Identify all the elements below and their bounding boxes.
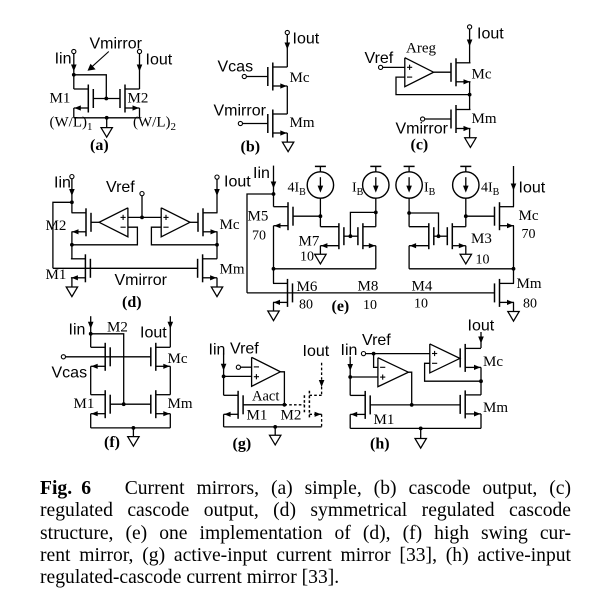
ground (h) bbox=[415, 439, 426, 449]
node bottom junction (g) bbox=[273, 425, 277, 429]
svg-text:M5: M5 bbox=[248, 209, 269, 225]
transistor Mm (h) bbox=[464, 390, 466, 418]
wire Vref to op-amp - (g) bbox=[241, 366, 252, 368]
op-amp left U1 (d) bbox=[99, 208, 128, 237]
wire Mm drain (e) bbox=[513, 269, 515, 284]
wire M1-Mm gate rail (f) bbox=[110, 403, 151, 405]
wire Iin (d) bbox=[71, 179, 73, 203]
wire op-amp1 output to M2 gate (d) bbox=[91, 221, 99, 223]
terminal Vmirror (b) bbox=[238, 121, 242, 125]
svg-text:Iout: Iout bbox=[477, 26, 504, 43]
wire Mm source to ground (e) bbox=[513, 302, 515, 311]
current source IB right (e) bbox=[396, 172, 422, 198]
wire op-amp2 output to Mc gate (d) bbox=[190, 221, 198, 223]
wire M2 drain (f) bbox=[90, 334, 92, 347]
op-amp Aact U1 (g) bbox=[252, 357, 281, 386]
transistor M8 (e) bbox=[362, 223, 364, 249]
ground M6 (e) bbox=[268, 311, 279, 321]
svg-text:Iin: Iin bbox=[253, 165, 270, 182]
transistor M2 (d) bbox=[85, 208, 87, 236]
ground M1 (d) bbox=[66, 287, 77, 297]
op-amp Areg U1 (c) bbox=[405, 58, 434, 87]
ground (f) bbox=[128, 437, 139, 447]
wire feedback op-amp2 (d) bbox=[151, 227, 217, 245]
wire M5 gate to 4IB node (e) bbox=[293, 215, 320, 217]
wire 4IB right column (e) bbox=[465, 198, 467, 227]
figure caption bbox=[40, 478, 571, 589]
wire Vcas (b) bbox=[246, 76, 267, 78]
svg-text:Aact: Aact bbox=[252, 389, 279, 405]
svg-text:Vcas: Vcas bbox=[218, 59, 254, 76]
wire Mm drain (h) bbox=[480, 381, 482, 395]
node Vref junction (h) bbox=[372, 352, 376, 356]
transistor Mm (f) bbox=[155, 390, 157, 418]
terminal Iin (a) bbox=[72, 49, 76, 53]
current source 4IB left (e) bbox=[307, 172, 333, 198]
terminal Vcas (f) bbox=[61, 355, 65, 359]
svg-text:Mm: Mm bbox=[483, 400, 508, 416]
op-amp U2 (h) bbox=[430, 344, 460, 373]
svg-text:Areg: Areg bbox=[406, 41, 436, 57]
svg-text:Mm: Mm bbox=[168, 396, 193, 412]
wire Vmirror gate rail (d) bbox=[53, 267, 198, 269]
wire bottom rail (h) bbox=[350, 427, 481, 429]
svg-text:Vmirror: Vmirror bbox=[214, 103, 267, 120]
wire M1 source (a) bbox=[73, 108, 75, 118]
wire M1 gate (g) bbox=[243, 404, 284, 406]
wire Iout (c) bbox=[469, 29, 471, 63]
terminal Vref (d) bbox=[140, 192, 144, 196]
wire Vref rail (h) bbox=[366, 353, 430, 355]
wire Iin to gate rail bracket (d) bbox=[53, 202, 72, 268]
svg-text:Iout: Iout bbox=[224, 174, 251, 191]
transistor M3 (e) bbox=[451, 223, 453, 249]
wire M6 source to ground (e) bbox=[273, 302, 275, 311]
terminal Iout (a) bbox=[137, 49, 141, 53]
svg-text:(h): (h) bbox=[370, 436, 390, 453]
transistor Mc (e) bbox=[499, 202, 501, 230]
wire M2 drain (d) bbox=[71, 202, 73, 213]
wire Mm source to ground (c) bbox=[469, 129, 471, 138]
wire ground stem (a) bbox=[106, 118, 108, 128]
wire gate rail (a) bbox=[93, 98, 120, 100]
svg-text:Iout: Iout bbox=[468, 318, 495, 335]
transistor M2 dashed (g) bbox=[308, 391, 310, 419]
op-amp U1 (h) bbox=[378, 358, 409, 387]
svg-text:80: 80 bbox=[299, 298, 313, 313]
svg-text:Iin: Iin bbox=[209, 342, 226, 359]
svg-text:M1: M1 bbox=[374, 412, 395, 428]
node Mc gate junction (e) bbox=[464, 214, 468, 218]
terminal Iout (d) bbox=[215, 175, 219, 179]
wire 4IB left column (e) bbox=[319, 198, 321, 227]
supply T-bar IB right (e) bbox=[404, 165, 415, 167]
wire op-amp output to Mc gate (c) bbox=[434, 71, 451, 73]
wire Mm source to ground (d) bbox=[216, 278, 218, 287]
node M5-M6 junction (e) bbox=[272, 267, 276, 271]
wire M2 source dashed (g) bbox=[321, 414, 323, 427]
transistor M1 (d) bbox=[84, 254, 86, 282]
wire Iout dashed (g) bbox=[321, 363, 323, 396]
terminal Iin (d) bbox=[70, 175, 74, 179]
svg-text:Vmirror: Vmirror bbox=[396, 120, 449, 137]
ground (g) bbox=[270, 435, 281, 445]
svg-text:M1: M1 bbox=[247, 408, 268, 424]
svg-text:Iout: Iout bbox=[293, 31, 320, 48]
wire Mc gate to 4IB node (e) bbox=[466, 215, 495, 217]
wire feedback op-amp1 (d) bbox=[72, 227, 137, 245]
wire Iout (a) bbox=[139, 54, 141, 89]
wire M2 source to M1 drain (f) bbox=[90, 366, 92, 394]
svg-text:M3: M3 bbox=[471, 231, 492, 247]
wire M2 source to node (d) bbox=[71, 232, 73, 245]
wire M1 source (h) bbox=[349, 414, 351, 428]
wire Iin to op-amp + (g) bbox=[224, 375, 252, 377]
wire Iin (h) bbox=[349, 357, 351, 378]
transistor M7 (e) bbox=[338, 223, 340, 249]
wire M7-M8 gate link (e) bbox=[344, 235, 358, 237]
wire Iout (e) bbox=[513, 166, 515, 207]
svg-text:M2: M2 bbox=[281, 408, 302, 424]
wire Vref to op-amp1 - (h) bbox=[374, 354, 378, 368]
wire IB right column (e) bbox=[408, 198, 410, 227]
wire node interconnect right (e) bbox=[409, 268, 513, 270]
node feedback junction (c) bbox=[468, 93, 472, 97]
wire feedback from - input (c) bbox=[396, 77, 470, 95]
wire Mc source to node (d) bbox=[216, 232, 218, 245]
wire Mc source column (e) bbox=[513, 226, 515, 269]
wire Vmirror (c) bbox=[425, 118, 451, 120]
svg-text:(e): (e) bbox=[332, 298, 350, 315]
supply T-bar 4IB left (e) bbox=[315, 165, 326, 167]
wire Iout (b) bbox=[286, 35, 288, 67]
node gate junction (h) bbox=[410, 403, 414, 407]
ground M7 (e) bbox=[315, 254, 326, 264]
svg-text:M8: M8 bbox=[358, 279, 379, 295]
wire gate link to IB node left (e) bbox=[350, 212, 375, 236]
supply T-bar IB left (e) bbox=[370, 165, 381, 167]
wire feedback op-amp2 (h) bbox=[425, 363, 481, 381]
wire Iin (a) bbox=[73, 54, 75, 75]
node M2 source junction (d) bbox=[70, 243, 74, 247]
transistor Mc (f) bbox=[155, 343, 157, 371]
wire M4 source to node (e) bbox=[408, 246, 410, 269]
svg-text:Vmirror: Vmirror bbox=[115, 272, 168, 289]
svg-text:(c): (c) bbox=[411, 137, 429, 154]
wire M1-Mm gate rail (h) bbox=[370, 404, 460, 406]
svg-text:(a): (a) bbox=[90, 137, 109, 154]
wire Mc source to node (h) bbox=[480, 367, 482, 381]
op-amp right U2 (d) bbox=[161, 208, 190, 237]
transistor M5 (e) bbox=[287, 202, 289, 230]
node Iin junction (h) bbox=[348, 375, 352, 379]
ground Mm (e) bbox=[508, 312, 519, 322]
terminal Vcas (b) bbox=[242, 74, 246, 78]
wire M1 drain (h) bbox=[349, 377, 351, 395]
svg-text:Iin: Iin bbox=[69, 322, 86, 339]
node Mc-Mm junction (e) bbox=[512, 267, 516, 271]
node bottom junction (h) bbox=[419, 427, 423, 431]
wire Iin to gate column (f) bbox=[91, 334, 124, 404]
wire Mm source (f) bbox=[169, 414, 171, 428]
svg-text:Iout: Iout bbox=[140, 325, 167, 342]
svg-text:Iout: Iout bbox=[519, 180, 546, 197]
wire ground stem (f) bbox=[132, 428, 134, 437]
node IB junction left (e) bbox=[374, 211, 378, 215]
svg-text:Vmirror: Vmirror bbox=[90, 35, 143, 52]
node gate junction (g) bbox=[283, 403, 287, 407]
ground (a) bbox=[101, 128, 112, 138]
wire ground stem (g) bbox=[274, 427, 276, 435]
supply T-bar 4IB right (e) bbox=[460, 165, 471, 167]
transistor M1 (a) bbox=[87, 85, 89, 113]
svg-text:Iout: Iout bbox=[146, 52, 173, 69]
svg-text:Iin: Iin bbox=[54, 175, 71, 192]
svg-text:Vcas: Vcas bbox=[52, 365, 88, 382]
wire op-amp1 output (h) bbox=[408, 372, 411, 405]
wire M5 drain (e) bbox=[273, 194, 275, 207]
wire M8 source to node (e) bbox=[375, 246, 377, 269]
current source 4IB right (e) bbox=[453, 172, 479, 198]
wire Mm drain (d) bbox=[216, 245, 218, 259]
transistor M1 (f) bbox=[104, 390, 106, 418]
wire Vref stem (d) bbox=[141, 196, 143, 218]
transistor M4 (e) bbox=[428, 223, 430, 249]
svg-text:Vref: Vref bbox=[362, 332, 391, 349]
wire M5 source column (e) bbox=[273, 226, 275, 269]
wire gate rail (e) bbox=[247, 292, 495, 294]
transistor Mc (c) bbox=[455, 58, 457, 86]
svg-text:(f): (f) bbox=[104, 434, 120, 451]
svg-text:M2: M2 bbox=[46, 218, 67, 234]
pointer arrow Vmirror (a) bbox=[90, 52, 109, 69]
node Iin junction (f) bbox=[89, 332, 93, 336]
svg-text:70: 70 bbox=[522, 227, 536, 242]
wire Mc source to Mm drain (c) bbox=[469, 82, 471, 110]
wire Iin (e) bbox=[273, 166, 275, 194]
svg-text:Vref: Vref bbox=[230, 341, 259, 358]
wire Iin to op-amp + (h) bbox=[350, 376, 378, 378]
svg-text:(W/L)2: (W/L)2 bbox=[133, 114, 176, 133]
wire Iin to left bracket (e) bbox=[247, 194, 274, 293]
node Mc source junction (d) bbox=[215, 243, 219, 247]
wire M1 source (g) bbox=[223, 414, 225, 427]
ground M3 (e) bbox=[460, 254, 471, 264]
transistor M1 (h) bbox=[364, 391, 366, 419]
terminal Vref (g) bbox=[236, 365, 240, 369]
wire Vcas rail (f) bbox=[66, 356, 151, 358]
svg-text:80: 80 bbox=[523, 297, 537, 312]
terminal Vref (h) bbox=[361, 352, 365, 356]
wire M2 source (a) bbox=[139, 108, 141, 118]
svg-text:Vref: Vref bbox=[365, 50, 394, 67]
svg-text:10: 10 bbox=[476, 253, 490, 268]
svg-text:Mc: Mc bbox=[168, 351, 188, 367]
wire Iin (g) bbox=[223, 354, 225, 377]
node M5 gate junction (e) bbox=[319, 214, 323, 218]
terminal Vref (c) bbox=[379, 65, 383, 69]
svg-text:Mc: Mc bbox=[290, 70, 310, 86]
svg-text:70: 70 bbox=[252, 229, 266, 244]
node bottom junction (a) bbox=[105, 116, 109, 120]
transistor M6 (e) bbox=[287, 279, 289, 307]
wire op-amp output (g) bbox=[280, 372, 284, 405]
wire Iin (f) bbox=[90, 316, 92, 334]
ground (b) bbox=[282, 142, 293, 152]
transistor Mc (h) bbox=[464, 344, 466, 372]
svg-text:M1: M1 bbox=[46, 267, 67, 283]
svg-text:Mc: Mc bbox=[472, 67, 492, 83]
node Iin-gate junction (a) bbox=[72, 73, 76, 77]
node gate junction (f) bbox=[122, 402, 126, 406]
node Mc source junction (h) bbox=[479, 379, 483, 383]
svg-text:M1: M1 bbox=[74, 396, 95, 412]
svg-text:(W/L)1: (W/L)1 bbox=[50, 114, 93, 133]
wire M6 drain (e) bbox=[273, 269, 275, 284]
svg-text:Mc: Mc bbox=[519, 208, 539, 224]
wire Vmirror (b) bbox=[243, 123, 268, 125]
wire IB left column (e) bbox=[375, 198, 377, 227]
transistor M2 (f) bbox=[104, 343, 106, 371]
svg-text:M7: M7 bbox=[299, 234, 320, 250]
transistor M2 (a) bbox=[124, 85, 126, 113]
wire Mc source to Mm drain (b) bbox=[286, 86, 288, 114]
transistor Mm (e) bbox=[499, 279, 501, 307]
svg-text:Iin: Iin bbox=[341, 342, 358, 359]
wire dashed gate link to M2 (g) bbox=[284, 404, 304, 406]
svg-text:M1: M1 bbox=[50, 91, 71, 107]
svg-text:M2: M2 bbox=[128, 91, 149, 107]
terminal Iout (c) bbox=[468, 25, 472, 29]
wire M1 source to ground (d) bbox=[71, 278, 73, 287]
node IB junction right (e) bbox=[407, 211, 411, 215]
wire Iout (f) bbox=[169, 316, 171, 347]
transistor Mm (c) bbox=[455, 105, 457, 133]
wire Iout (h) bbox=[480, 332, 482, 348]
wire node interconnect left (e) bbox=[274, 268, 376, 270]
svg-text:Vref: Vref bbox=[106, 179, 135, 196]
svg-text:10: 10 bbox=[363, 298, 377, 313]
svg-text:Mm: Mm bbox=[220, 262, 245, 278]
wire bottom rail (f) bbox=[91, 427, 171, 429]
terminal Iout (b) bbox=[285, 30, 289, 34]
node gate link junction right (e) bbox=[437, 234, 441, 238]
node Vref junction (d) bbox=[140, 216, 144, 220]
transistor M1 (g) bbox=[237, 391, 239, 419]
wire gate feedback (a) bbox=[74, 75, 107, 99]
wire M1 drain (d) bbox=[71, 245, 73, 259]
node Iin junction (d) bbox=[70, 200, 74, 204]
ground (c) bbox=[465, 138, 476, 148]
wire M4-M3 gate link (e) bbox=[434, 235, 448, 237]
wire M1 drain (g) bbox=[223, 376, 225, 395]
svg-text:Mc: Mc bbox=[483, 354, 503, 370]
wire bottom rail (a) bbox=[74, 117, 140, 119]
wire Iout (d) bbox=[216, 179, 218, 213]
svg-text:M2: M2 bbox=[107, 320, 128, 336]
wire ground stem (h) bbox=[420, 428, 422, 438]
svg-text:10: 10 bbox=[300, 250, 314, 265]
node bottom junction (f) bbox=[132, 426, 136, 430]
node Iin junction (g) bbox=[222, 375, 226, 379]
svg-text:(b): (b) bbox=[241, 139, 261, 156]
wire M3 source to ground (e) bbox=[465, 246, 467, 255]
wire M1 source (f) bbox=[90, 414, 92, 428]
wire M7 source to ground (e) bbox=[319, 246, 321, 255]
svg-text:Iin: Iin bbox=[55, 51, 72, 68]
wire Mc source to Mm drain (f) bbox=[169, 366, 171, 394]
node gate link junction left (e) bbox=[349, 234, 353, 238]
wire Vref to op-amp + (c) bbox=[383, 66, 405, 68]
ground Mm (d) bbox=[211, 287, 222, 297]
current source IB left (e) bbox=[363, 172, 389, 198]
transistor Mc (b) bbox=[272, 63, 274, 91]
transistor Mc (d) bbox=[202, 208, 204, 236]
wire bottom rail (g) bbox=[224, 426, 322, 428]
svg-text:Mc: Mc bbox=[220, 217, 240, 233]
wire Vref rail to op-amp inputs (d) bbox=[128, 216, 161, 218]
svg-text:Iout: Iout bbox=[303, 343, 330, 360]
transistor Mm (d) bbox=[202, 254, 204, 282]
wire Mm source to ground (b) bbox=[286, 133, 288, 142]
wire Mm source (h) bbox=[480, 414, 482, 429]
terminal Vmirror (c) bbox=[421, 117, 425, 121]
transistor Mm (b) bbox=[272, 110, 274, 138]
node Iin junction (e) bbox=[272, 192, 276, 196]
svg-text:(d): (d) bbox=[122, 294, 142, 311]
wire gate link to IB node right (e) bbox=[409, 213, 438, 236]
svg-text:(g): (g) bbox=[233, 436, 252, 453]
svg-text:Mm: Mm bbox=[472, 111, 497, 127]
svg-text:10: 10 bbox=[414, 297, 428, 312]
svg-text:Mm: Mm bbox=[290, 115, 315, 131]
node gate junction (a) bbox=[104, 97, 108, 101]
svg-text:M4: M4 bbox=[412, 279, 433, 295]
wire M1 drain (a) bbox=[73, 75, 75, 89]
svg-text:Mm: Mm bbox=[517, 276, 542, 292]
